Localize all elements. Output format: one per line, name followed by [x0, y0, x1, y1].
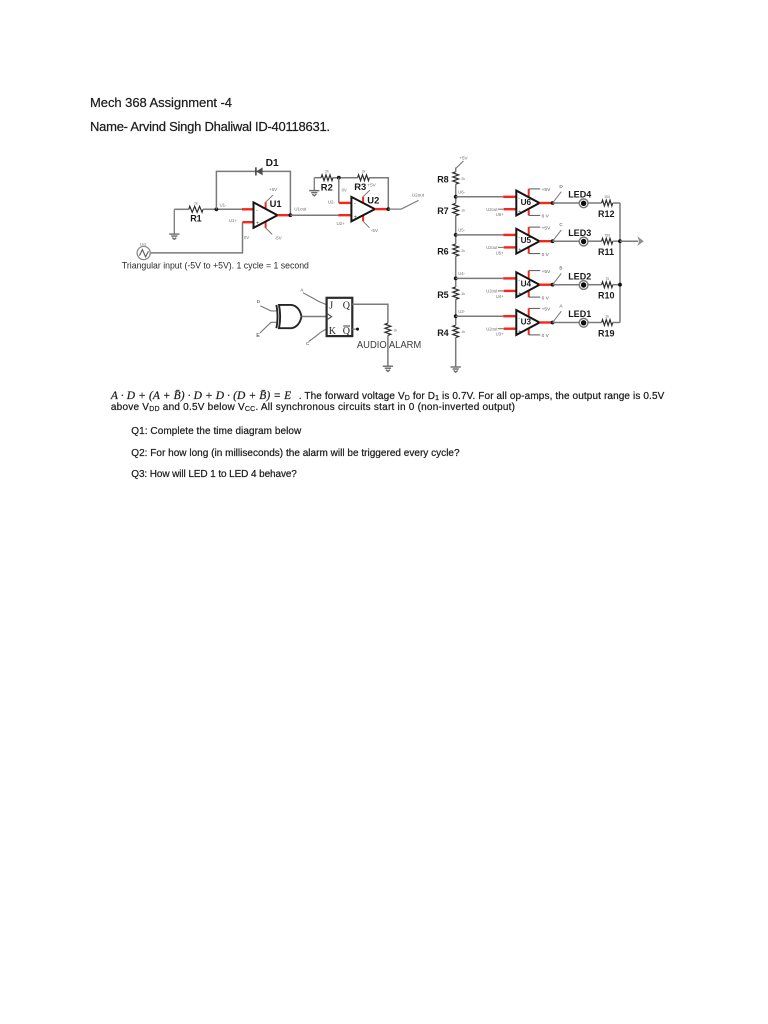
wire R19 to bus — [613, 322, 620, 324]
svg-text:3k: 3k — [461, 292, 465, 296]
svg-text:R1: R1 — [190, 214, 202, 224]
wire U2 non-inverting input stub — [338, 214, 351, 216]
label U4- — [458, 271, 465, 276]
svg-text:U2out: U2out — [412, 193, 425, 198]
resistor R5 — [437, 287, 465, 300]
U3 ground pin 0V — [529, 328, 550, 339]
svg-text:+5V: +5V — [542, 225, 551, 231]
svg-text:Triangular input (-5V to +5V).: Triangular input (-5V to +5V). 1 cycle =… — [122, 260, 309, 271]
svg-text:U6+: U6+ — [496, 212, 504, 217]
svg-text:A: A — [559, 304, 563, 309]
svg-text:Q: Q — [343, 326, 351, 337]
resistor alarm load — [385, 323, 397, 335]
svg-text:2k: 2k — [461, 249, 465, 253]
node U2 output — [386, 207, 390, 211]
label C at K input — [306, 341, 310, 346]
formula paragraph line 1 — [111, 391, 665, 403]
wire ground to R2 — [314, 177, 321, 179]
LED1 — [568, 309, 591, 327]
label +5V ladder top — [456, 156, 469, 169]
svg-text:+5V: +5V — [269, 187, 278, 192]
wire U2 output stub — [375, 208, 388, 210]
svg-text:U2+: U2+ — [337, 221, 346, 226]
node U3 output — [551, 321, 555, 325]
label 0V at U1+ wire — [244, 235, 249, 240]
wire Qbar stub — [352, 328, 359, 331]
wire voltage divider ladder — [455, 168, 457, 368]
svg-text:D: D — [559, 184, 563, 189]
node U6 output — [551, 201, 555, 205]
svg-text:U4-: U4- — [458, 271, 465, 276]
wire LED1 to R19 — [588, 322, 602, 324]
label U6+ — [496, 212, 504, 217]
svg-text:U4: U4 — [521, 280, 532, 289]
wire alarm resistor to ground — [387, 335, 389, 366]
wire arrow output — [620, 236, 644, 246]
svg-text:K: K — [329, 326, 337, 337]
svg-text:R12: R12 — [598, 209, 615, 219]
source V1 triangular input — [137, 243, 150, 260]
label U3- — [458, 309, 465, 314]
wire U2out to U4 non-inverting input — [498, 290, 516, 292]
label U3+ — [496, 332, 504, 337]
wire tap to U5 inverting input — [456, 234, 517, 236]
U2 negative supply pin -5V — [363, 215, 379, 232]
wire LED3 to R11 — [588, 240, 602, 242]
svg-text:+5V: +5V — [459, 156, 468, 161]
svg-text:+: + — [518, 248, 521, 254]
wire output bus — [619, 203, 621, 323]
wire U1 inverting input stub — [242, 208, 254, 210]
label U1- — [220, 203, 228, 208]
svg-text:+: + — [518, 291, 521, 297]
node U1 inverting junction — [215, 207, 219, 211]
LED3 — [568, 228, 591, 246]
svg-text:U1-: U1- — [220, 203, 228, 208]
svg-text:+: + — [256, 221, 259, 227]
svg-text:75: 75 — [605, 277, 609, 281]
svg-text:-5V: -5V — [371, 228, 379, 233]
svg-text:1k: 1k — [393, 329, 397, 333]
label U2out — [412, 193, 425, 198]
wire U2out to U5 non-inverting input — [498, 246, 516, 248]
wire tap to U4 inverting input — [456, 277, 517, 279]
svg-text:R10: R10 — [598, 291, 615, 301]
svg-text:+: + — [518, 209, 521, 215]
label AUDIO ALARM — [357, 340, 421, 351]
svg-text:U5-: U5- — [458, 228, 465, 233]
label 0V at U2- wire — [342, 187, 347, 192]
wire U1 non-inverting input stub — [243, 221, 254, 223]
label E xor input — [256, 333, 260, 339]
wire U6 output stub — [540, 202, 553, 204]
svg-text:-: - — [256, 207, 258, 213]
wire U5 output to LED3 — [553, 240, 580, 242]
U4 ground pin 0V — [529, 291, 550, 302]
title line — [90, 96, 232, 109]
svg-text:200: 200 — [604, 195, 610, 199]
wire D to XOR input — [260, 306, 278, 311]
svg-text:R5: R5 — [437, 290, 449, 300]
svg-text:U4+: U4+ — [496, 294, 504, 299]
ground at ladder bottom — [451, 367, 461, 372]
node divider tap U5- — [454, 233, 458, 237]
svg-text:LED4: LED4 — [568, 190, 591, 200]
wire XOR output to clock — [302, 316, 327, 318]
svg-text:U1+: U1+ — [229, 218, 238, 223]
U2 positive supply pin +5V — [363, 182, 377, 203]
svg-text:U3+: U3+ — [496, 332, 504, 337]
node divider tap U6- — [454, 195, 458, 199]
svg-text:R4: R4 — [437, 328, 449, 338]
wire LED2 to R10 — [588, 284, 602, 286]
label U4+ — [496, 294, 504, 299]
svg-text:U3: U3 — [521, 317, 532, 326]
svg-text:+: + — [518, 329, 521, 335]
svg-text:U1: U1 — [270, 198, 282, 209]
resistor R11 — [598, 233, 614, 257]
svg-text:R19: R19 — [598, 329, 615, 339]
label U1out — [294, 206, 307, 211]
XOR gate — [276, 305, 301, 328]
label U2out at U4+ — [486, 289, 498, 294]
label U5+ — [496, 250, 504, 255]
U3 positive supply +5V — [529, 307, 551, 317]
wire source to U1+ input — [150, 222, 242, 253]
label U2+ — [337, 221, 346, 226]
svg-text:U5: U5 — [521, 236, 532, 245]
name line — [90, 120, 330, 133]
svg-text:+5V: +5V — [542, 307, 551, 313]
wire U1 output to U2+ — [290, 214, 338, 216]
wire U1 output stub — [278, 214, 291, 216]
svg-text:U2: U2 — [367, 194, 379, 205]
question Q1 — [131, 427, 301, 437]
label U2out at U5+ — [486, 245, 498, 250]
svg-text:U5+: U5+ — [496, 250, 504, 255]
formula paragraph line 2 — [111, 403, 515, 413]
wire U4 output to LED2 — [553, 284, 580, 286]
svg-text:U2-: U2- — [328, 199, 336, 204]
wire U2out to U6 non-inverting input — [498, 208, 516, 210]
svg-text:U6: U6 — [521, 198, 532, 207]
svg-text:LED1: LED1 — [568, 309, 591, 319]
question Q2 — [131, 449, 459, 459]
svg-text:AUDIO ALARM: AUDIO ALARM — [357, 340, 421, 351]
wire U5 output stub — [540, 240, 553, 242]
U1 positive supply pin +5V — [266, 187, 279, 209]
svg-text:2k: 2k — [461, 177, 465, 181]
svg-text:LED3: LED3 — [568, 228, 591, 238]
wire U3 output stub — [540, 321, 553, 323]
wire U3 output to LED1 — [553, 322, 580, 324]
wire U2out to U3 non-inverting input — [498, 328, 516, 330]
svg-text:U1out: U1out — [294, 206, 307, 211]
svg-text:D: D — [257, 299, 261, 305]
resistor R12 — [598, 195, 615, 219]
node divider tap U4- — [454, 277, 458, 281]
wire C to K — [309, 329, 327, 342]
node U5 output — [551, 239, 555, 243]
svg-text:0 V: 0 V — [542, 252, 550, 258]
net flag B — [553, 266, 563, 285]
U4 positive supply +5V — [529, 269, 551, 279]
svg-text:750: 750 — [604, 233, 610, 237]
net flag A — [553, 304, 564, 323]
op-amp U1 — [254, 198, 282, 228]
node bus LED2 row — [618, 283, 622, 287]
label U2out at U6+ — [486, 207, 498, 212]
resistor R1 — [189, 201, 203, 223]
wire U2out flag — [388, 200, 418, 209]
svg-text:0V: 0V — [244, 235, 249, 240]
svg-text:D1: D1 — [266, 158, 279, 169]
resistor R19 — [598, 315, 615, 339]
U1 negative supply pin -5V — [266, 222, 283, 241]
svg-text:R11: R11 — [598, 247, 614, 257]
svg-text:0V: 0V — [342, 187, 347, 192]
svg-text:U6-: U6- — [458, 189, 465, 194]
svg-text:1k: 1k — [461, 330, 465, 334]
label U5- — [458, 228, 465, 233]
label U2out at U3+ — [486, 327, 498, 332]
wire E to XOR input — [260, 322, 278, 333]
resistor R6 — [437, 244, 465, 257]
node divider tap U3- — [454, 314, 458, 318]
label U2- — [328, 199, 336, 204]
node U1 output — [289, 213, 293, 217]
svg-text:-5V: -5V — [275, 235, 283, 240]
wire ground to R1 — [174, 208, 189, 210]
node U4 output — [551, 283, 555, 287]
wire feedback loop U1 — [216, 171, 290, 215]
svg-text:0 V: 0 V — [542, 295, 550, 301]
svg-text:+5V: +5V — [542, 269, 551, 275]
wire node to U2- — [338, 178, 340, 203]
svg-text:LED2: LED2 — [568, 271, 591, 281]
wire tap to U3 inverting input — [456, 315, 517, 317]
svg-text:2k: 2k — [325, 169, 329, 173]
resistor R3 — [354, 169, 369, 192]
svg-text:+: + — [354, 214, 357, 220]
U5 ground pin 0V — [529, 247, 550, 258]
node bus LED3 row — [618, 239, 622, 243]
svg-text:1k: 1k — [461, 208, 465, 212]
net flag C — [553, 222, 564, 241]
label U6- — [458, 189, 465, 194]
comparator U3 — [516, 310, 539, 335]
wire U6 output to LED4 — [553, 202, 580, 204]
JK flip-flop — [327, 298, 353, 337]
svg-text:R3: R3 — [354, 181, 366, 192]
wire LED4 to R12 — [588, 202, 602, 204]
svg-text:R2: R2 — [321, 181, 333, 192]
wire R10 to bus — [613, 284, 620, 286]
svg-text:1Hz: 1Hz — [140, 243, 147, 247]
wire R12 to bus — [613, 202, 620, 204]
svg-text:2k: 2k — [362, 169, 366, 173]
svg-text:B: B — [559, 266, 562, 271]
comparator U5 — [516, 229, 539, 254]
net flag D — [553, 184, 564, 203]
U6 ground pin 0V — [529, 209, 550, 220]
svg-text:R8: R8 — [437, 175, 449, 185]
svg-text:0 V: 0 V — [542, 333, 550, 339]
comparator U4 — [516, 272, 539, 297]
U5 positive supply +5V — [529, 225, 551, 235]
svg-text:R6: R6 — [437, 247, 449, 257]
svg-text:Q: Q — [343, 300, 351, 311]
svg-text:+5V: +5V — [367, 182, 376, 187]
resistor R8 — [437, 172, 465, 185]
svg-text:J: J — [329, 300, 333, 311]
wire R11 to bus — [613, 240, 620, 242]
label Triangular input caption — [122, 260, 309, 271]
LED2 — [568, 271, 591, 289]
wire R1 to inverting node — [203, 208, 242, 210]
wire R3 feedback to U2 output — [369, 178, 388, 209]
wire tap to U6 inverting input — [456, 196, 517, 198]
LED4 — [568, 190, 591, 208]
resistor R4 — [437, 325, 465, 338]
wire A to J — [303, 293, 327, 305]
svg-text:-: - — [354, 201, 356, 207]
resistor R7 — [437, 203, 465, 216]
wire Q output to alarm — [352, 304, 388, 323]
svg-text:2k: 2k — [605, 315, 609, 319]
wire R2 to node — [333, 177, 358, 179]
ground at R2 — [309, 178, 319, 196]
node R2 R3 junction — [337, 176, 341, 180]
question Q3 — [131, 470, 296, 480]
op-amp U2 — [351, 194, 379, 221]
comparator U6 — [516, 191, 539, 216]
label D xor input — [257, 299, 261, 305]
label A at J input — [300, 287, 304, 292]
wire U2 inverting input stub — [339, 202, 352, 204]
svg-text:A: A — [300, 287, 304, 292]
svg-text:E: E — [256, 333, 260, 339]
resistor R2 — [321, 169, 333, 192]
resistor R10 — [598, 277, 615, 301]
label U1+ — [229, 218, 238, 223]
svg-text:0 V: 0 V — [542, 214, 550, 220]
svg-text:U3-: U3- — [458, 309, 465, 314]
ground audio alarm — [383, 366, 393, 371]
diode D1 — [256, 158, 279, 176]
svg-text:C: C — [559, 222, 563, 227]
svg-text:R7: R7 — [437, 206, 449, 216]
ground at R1 — [169, 209, 179, 239]
svg-text:1k: 1k — [194, 201, 198, 205]
U6 positive supply +5V — [529, 187, 551, 197]
wire U4 output stub — [540, 284, 553, 286]
svg-text:+5V: +5V — [542, 187, 551, 193]
